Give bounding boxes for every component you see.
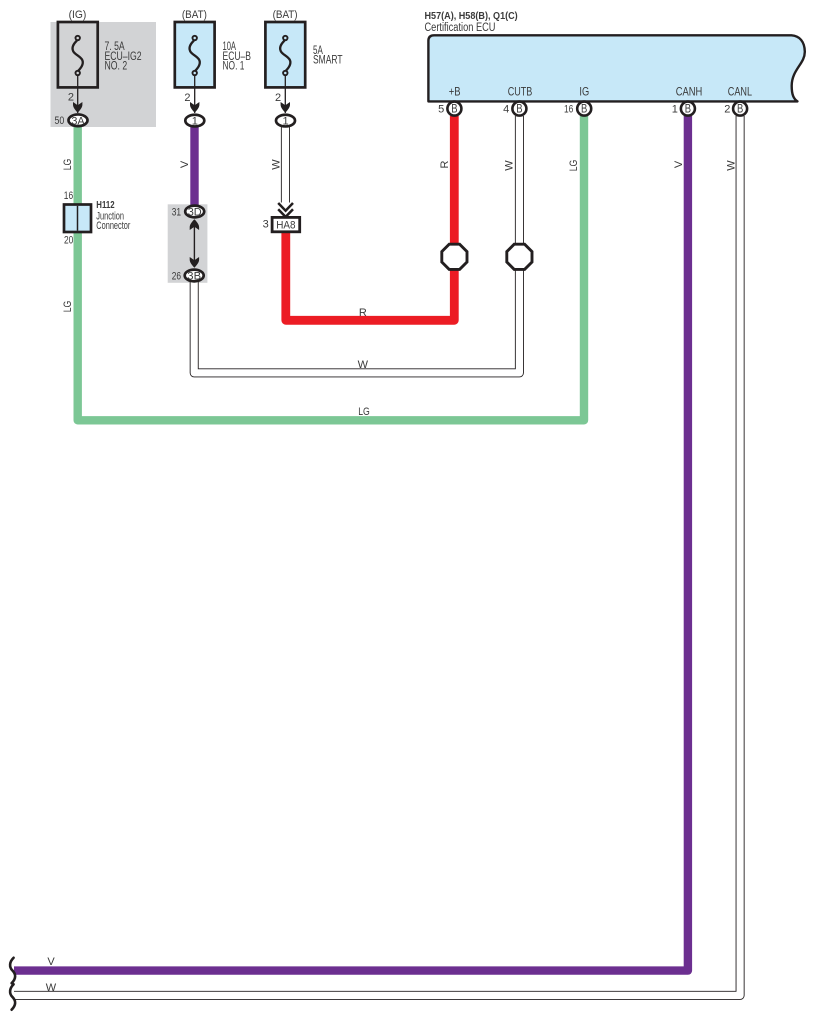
svg-text:2: 2 [184,92,190,104]
ECU pin 4 B [503,102,526,116]
connector 3A [55,114,88,127]
wire R from ECU pin +B to connector HA8 [286,116,455,320]
connector 3B [172,270,204,283]
break symbol on V wire [10,958,15,983]
svg-text:V: V [179,160,191,168]
wire W from ECU pin CANL to bottom break [14,116,740,995]
fuse ECU-IG2 NO.2 [58,9,142,88]
inline connector octagon on R wire [442,244,467,269]
svg-text:IG: IG [579,85,589,99]
fuse SMART pin 2 lead and arrow [275,75,290,113]
connector HA8 chevrons [278,203,293,220]
connector HA8 box [263,217,300,231]
fuse ECU-B pin 2 lead and arrow [184,75,199,113]
ECU pin 2 B [724,102,747,116]
svg-text:B: B [451,104,458,116]
svg-text:5: 5 [438,103,444,115]
ECU box H57/H58/Q1 [428,35,804,101]
svg-text:R: R [359,307,367,319]
svg-text:LG: LG [568,160,580,172]
wire V from fuse ECU-B to connector 3D [190,126,198,206]
svg-text:3A: 3A [71,115,85,127]
svg-text:3: 3 [263,218,269,230]
svg-text:(BAT): (BAT) [182,9,207,21]
svg-text:W: W [358,359,369,371]
svg-text:B: B [737,104,744,116]
break symbol on W wire [10,984,15,1009]
svg-text:LG: LG [358,406,370,418]
connector block 3D/3B background panel [168,204,208,282]
inline connector octagon on W wire [507,244,532,269]
svg-text:Connector: Connector [96,220,130,232]
svg-text:3B: 3B [187,271,201,283]
svg-text:LG: LG [62,159,74,171]
link arrows between 3D and 3B [190,219,199,267]
svg-text:NO. 2: NO. 2 [105,60,128,72]
svg-text:2: 2 [68,92,74,104]
junction connector H112 [64,190,131,247]
svg-text:B: B [581,104,588,116]
wire W from connector 3B to ECU pin CUTB [194,116,519,373]
fuse ECU-B NO.1 [175,9,251,88]
svg-text:(BAT): (BAT) [273,9,298,21]
svg-text:1: 1 [192,116,198,128]
svg-text:CANL: CANL [728,85,753,99]
svg-text:R: R [439,160,451,168]
svg-text:SMART: SMART [313,55,343,67]
connector 1 (ECU-B) [185,115,204,128]
wire LG from fuse ECU-IG2 via H112 to ECU pin IG [78,116,584,420]
svg-text:+B: +B [449,85,461,99]
fuse group (IG) background panel [51,22,157,127]
svg-text:31: 31 [172,206,181,218]
svg-text:1: 1 [282,116,288,128]
svg-text:V: V [47,956,55,968]
svg-text:3D: 3D [188,207,202,219]
svg-text:20: 20 [64,234,73,246]
svg-text:W: W [271,159,283,170]
connector 1 (SMART) [276,115,295,128]
svg-text:CANH: CANH [676,85,703,99]
svg-text:V: V [673,160,685,168]
svg-text:1: 1 [672,103,678,115]
fuse IG pin 2 lead and arrow [68,75,83,113]
svg-text:(IG): (IG) [69,9,87,21]
svg-text:2: 2 [275,92,281,104]
svg-text:26: 26 [172,270,181,282]
svg-text:Certification ECU: Certification ECU [425,22,496,34]
svg-text:B: B [685,104,692,116]
connector 3D [172,206,205,219]
svg-text:B: B [516,104,523,116]
fuse 5A SMART [265,9,342,88]
svg-text:H57(A), H58(B), Q1(C): H57(A), H58(B), Q1(C) [425,11,518,22]
ECU pin 16 B [564,102,591,116]
svg-text:4: 4 [503,103,509,115]
svg-text:HA8: HA8 [276,219,295,231]
svg-text:2: 2 [724,103,730,115]
svg-text:W: W [725,160,737,171]
svg-text:16: 16 [64,190,73,202]
svg-text:CUTB: CUTB [508,85,533,99]
svg-text:W: W [46,982,57,994]
svg-text:LG: LG [62,301,74,313]
svg-text:NO. 1: NO. 1 [223,60,245,72]
wire V from ECU pin CANH to bottom break [14,116,688,971]
wire W from fuse 5A SMART to HA8 chevron [281,126,290,203]
svg-text:W: W [503,160,515,171]
ECU pin 5 B [438,102,461,116]
svg-text:16: 16 [564,103,573,115]
svg-text:50: 50 [55,115,65,127]
ECU pin 1 B [672,102,695,116]
